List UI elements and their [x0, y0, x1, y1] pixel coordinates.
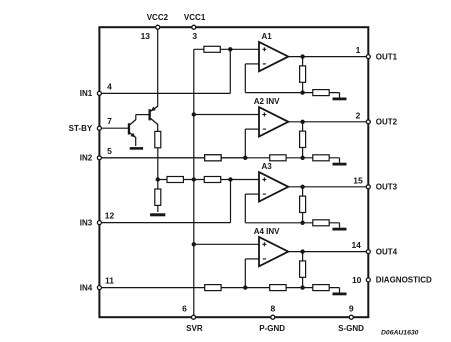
svg-text:DIAGNOSTICD: DIAGNOSTICD: [376, 276, 432, 285]
svg-text:1: 1: [356, 45, 361, 55]
svg-text:5: 5: [107, 146, 112, 156]
svg-text:11: 11: [105, 276, 114, 286]
svg-text:SVR: SVR: [186, 324, 203, 333]
svg-text:A2 INV: A2 INV: [254, 97, 280, 106]
svg-text:10: 10: [352, 275, 362, 285]
svg-text:8: 8: [271, 304, 276, 314]
svg-text:ST-BY: ST-BY: [69, 124, 93, 133]
svg-text:P-GND: P-GND: [259, 324, 285, 333]
svg-text:2: 2: [356, 110, 361, 120]
svg-text:12: 12: [105, 211, 115, 221]
svg-text:15: 15: [353, 175, 363, 185]
svg-text:OUT3: OUT3: [376, 183, 398, 192]
svg-text:OUT1: OUT1: [376, 52, 398, 61]
svg-text:S-GND: S-GND: [338, 324, 364, 333]
svg-text:IN4: IN4: [80, 283, 93, 292]
svg-text:OUT2: OUT2: [376, 118, 398, 127]
svg-text:A1: A1: [261, 32, 272, 41]
svg-text:VCC2: VCC2: [147, 13, 169, 22]
svg-text:IN3: IN3: [80, 218, 93, 227]
svg-text:IN1: IN1: [80, 89, 93, 98]
svg-text:D06AU1630: D06AU1630: [381, 329, 419, 336]
svg-text:14: 14: [351, 240, 361, 250]
svg-text:VCC1: VCC1: [184, 13, 206, 22]
svg-text:6: 6: [182, 304, 187, 314]
svg-text:7: 7: [107, 116, 112, 126]
svg-text:A4 INV: A4 INV: [254, 227, 280, 236]
svg-text:3: 3: [192, 31, 197, 41]
svg-text:OUT4: OUT4: [376, 247, 398, 256]
svg-text:A3: A3: [261, 162, 272, 171]
svg-text:9: 9: [349, 304, 354, 314]
svg-text:IN2: IN2: [80, 154, 93, 163]
svg-text:4: 4: [107, 81, 112, 91]
svg-text:13: 13: [141, 31, 151, 41]
